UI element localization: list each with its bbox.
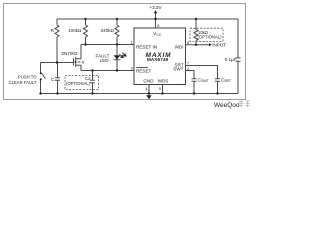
svg-text:LED: LED [100, 58, 110, 63]
svg-text:GND: GND [143, 78, 154, 83]
svg-text:2: 2 [187, 67, 189, 71]
svg-text:2N7002: 2N7002 [61, 51, 78, 56]
svg-text:+3.3V: +3.3V [149, 5, 162, 10]
svg-text:INPUT: INPUT [212, 43, 226, 48]
svg-text:C: C [51, 77, 55, 82]
svg-text:CLEAR FAULT: CLEAR FAULT [9, 80, 37, 85]
svg-text:WDS: WDS [158, 78, 169, 83]
svg-text:R: R [51, 28, 55, 33]
svg-text:WDI: WDI [175, 44, 184, 49]
svg-text:6: 6 [187, 41, 189, 45]
svg-text:(OPTIONAL): (OPTIONAL) [66, 81, 91, 86]
svg-text:CC: CC [157, 33, 162, 37]
svg-text:0.1µF: 0.1µF [225, 57, 237, 62]
svg-text:5: 5 [159, 87, 161, 91]
svg-text:RESET: RESET [136, 68, 152, 73]
svg-text:3: 3 [131, 67, 133, 71]
svg-text:(OPTIONAL): (OPTIONAL) [198, 34, 223, 39]
svg-text:240kΩ: 240kΩ [101, 28, 115, 33]
svg-text:SRT: SRT [224, 79, 231, 83]
svg-text:MAX6749: MAX6749 [147, 57, 169, 63]
svg-text:4: 4 [145, 87, 147, 91]
svg-text:1: 1 [131, 41, 133, 45]
svg-text:WeeQoo: WeeQoo [214, 102, 240, 109]
svg-text:100kΩ: 100kΩ [68, 28, 82, 33]
svg-text:N: N [82, 61, 85, 65]
svg-text:SWT: SWT [173, 67, 183, 72]
svg-text:RESET IN: RESET IN [136, 44, 157, 49]
svg-text:7: 7 [187, 62, 189, 66]
svg-text:SWT: SWT [201, 79, 209, 83]
svg-text:8: 8 [157, 24, 159, 28]
